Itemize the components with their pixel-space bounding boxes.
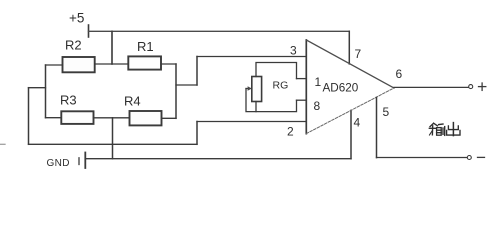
wire bottom run to pin2 riser xyxy=(29,143,198,145)
potentiometer RG xyxy=(252,77,262,102)
wire RG top xyxy=(256,63,297,79)
pin 2 label xyxy=(287,125,294,139)
wire pin3 riser xyxy=(196,57,198,86)
resistor R2 xyxy=(63,57,95,72)
wire R2 left to left rail xyxy=(46,64,63,66)
wire pin7 drop from +5 rail xyxy=(348,31,350,64)
svg-text:2: 2 xyxy=(287,125,294,139)
resistor R1 label xyxy=(137,39,154,54)
wire left node stub xyxy=(29,87,46,89)
plus sign xyxy=(479,86,486,88)
wire bridge bottom node to ground line xyxy=(112,118,114,159)
wire output pin 6 xyxy=(394,86,468,88)
+5 supply label xyxy=(69,10,84,25)
ground terminal tick xyxy=(78,158,80,165)
wire right node stub xyxy=(176,84,197,86)
char 输 xyxy=(430,123,437,126)
wire R2 right to R1 left xyxy=(95,63,129,65)
wire into pin 3 xyxy=(197,56,306,58)
op-amp name AD620 xyxy=(323,82,359,95)
svg-text:R2: R2 xyxy=(65,38,82,53)
svg-text:+5: +5 xyxy=(69,10,84,25)
wire R1 right to right rail xyxy=(161,63,176,65)
pin 4 label xyxy=(354,116,361,130)
wire pin4 riser xyxy=(350,110,352,158)
char 出 xyxy=(452,123,454,136)
svg-text:7: 7 xyxy=(355,47,362,61)
resistor R3 label xyxy=(60,93,77,108)
op-amp U1 AD620 triangle xyxy=(305,40,307,134)
text 输出 (output) drawn as strokes xyxy=(429,123,460,136)
+5 terminal tick xyxy=(88,25,90,37)
resistor R1 xyxy=(128,56,161,69)
pin 6 label xyxy=(396,67,403,81)
wire into pin 8 xyxy=(297,99,307,101)
minus output terminal xyxy=(467,156,471,160)
wire right bridge rail xyxy=(175,64,177,118)
wire into pin 1 xyxy=(297,78,307,80)
wire R3 left xyxy=(46,117,62,119)
svg-text:GND: GND xyxy=(47,158,70,169)
wire into pin 2 xyxy=(197,121,306,123)
RG value label xyxy=(273,80,289,92)
wire left node drop xyxy=(28,88,30,145)
resistor R2 label xyxy=(65,38,82,53)
wire left bridge rail xyxy=(45,65,47,118)
pin 1 label xyxy=(315,75,322,89)
wire R4 right xyxy=(162,117,177,119)
resistor R4 label xyxy=(124,94,141,109)
resistor R3 xyxy=(61,111,93,124)
svg-text:RG: RG xyxy=(273,80,289,92)
svg-text:AD620: AD620 xyxy=(323,82,359,95)
pin 8 label xyxy=(314,99,321,113)
plus output terminal xyxy=(469,85,473,89)
wire top +5 rail xyxy=(89,30,350,32)
ground terminal bar xyxy=(84,153,86,169)
wire supply tap to bridge top node xyxy=(111,31,113,64)
svg-text:R3: R3 xyxy=(60,93,77,108)
pin 5 label xyxy=(383,105,390,119)
svg-text:1: 1 xyxy=(315,75,322,89)
wire ground line xyxy=(85,158,351,160)
wire wiper to RG bottom xyxy=(246,89,256,112)
svg-text:4: 4 xyxy=(354,116,361,130)
wire pin5 to minus terminal xyxy=(377,157,468,159)
wire pin5 drop xyxy=(376,97,378,157)
svg-text:3: 3 xyxy=(290,44,297,58)
ground GND label xyxy=(47,158,70,169)
wire R3 right to R4 left xyxy=(94,117,130,119)
svg-text:R1: R1 xyxy=(137,39,154,54)
svg-text:R4: R4 xyxy=(124,94,141,109)
pin 7 label xyxy=(355,47,362,61)
left edge mark xyxy=(0,143,5,145)
svg-text:5: 5 xyxy=(383,105,390,119)
svg-text:6: 6 xyxy=(396,67,403,81)
wire pin2 riser xyxy=(196,122,198,145)
RG wiper arrow xyxy=(246,88,250,90)
pin 3 label xyxy=(290,44,297,58)
wire RG bottom xyxy=(256,100,297,111)
svg-text:8: 8 xyxy=(314,99,321,113)
resistor R4 xyxy=(130,111,162,125)
minus sign xyxy=(478,156,485,158)
